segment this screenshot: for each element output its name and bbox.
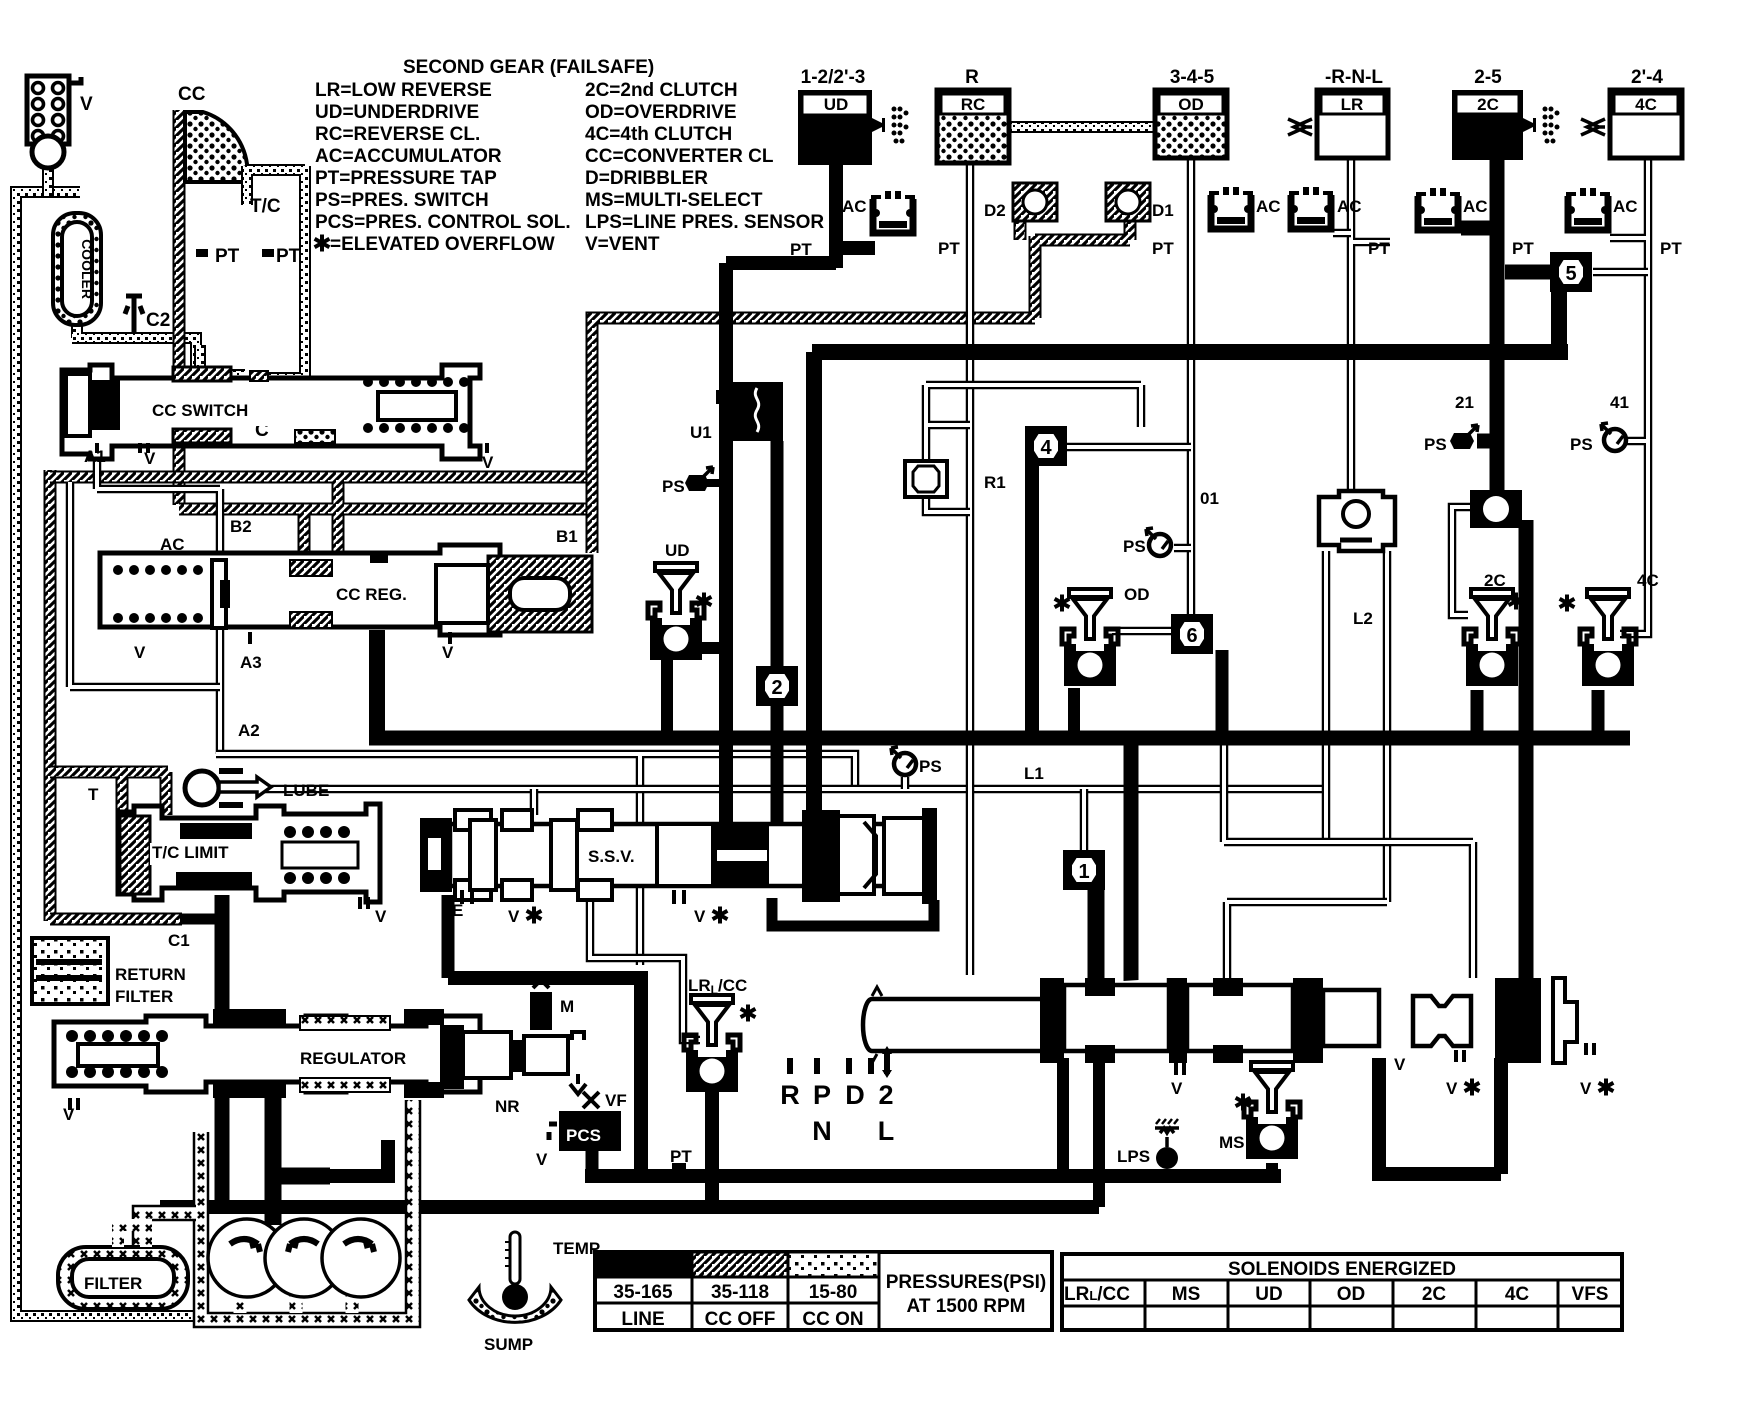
svg-text:2: 2: [771, 677, 782, 699]
svg-text:RC: RC: [961, 95, 986, 114]
white hex4 right loop: [1066, 443, 1191, 452]
connector node 5: [1550, 252, 1592, 292]
svg-text:PT: PT: [1368, 239, 1390, 258]
stippled vent fitting to cooler: [42, 160, 54, 196]
svg-text:=ELEVATED OVERFLOW: =ELEVATED OVERFLOW: [330, 234, 555, 255]
svg-text:FILTER: FILTER: [84, 1274, 142, 1293]
black CC REG drop: [369, 630, 385, 738]
svg-text:AT 1500 RPM: AT 1500 RPM: [907, 1296, 1026, 1317]
svg-text:M: M: [560, 997, 574, 1016]
black E line: [442, 895, 455, 978]
svg-text:LRL/CC: LRL/CC: [688, 976, 747, 997]
svg-text:AC=ACCUMULATOR: AC=ACCUMULATOR: [315, 146, 502, 167]
SSV area: [452, 847, 727, 926]
svg-text:AC: AC: [842, 197, 867, 216]
svg-text:4C: 4C: [1505, 1284, 1530, 1305]
svg-text:P: P: [813, 1080, 831, 1110]
white hex3 loop: [926, 385, 1141, 512]
hatched C1 line: [50, 913, 182, 926]
svg-text:LPS=LINE PRES. SENSOR: LPS=LINE PRES. SENSOR: [585, 212, 824, 233]
black V* loop right: [1372, 1058, 1501, 1174]
svg-text:PCS=PRES. CONTROL SOL.: PCS=PRES. CONTROL SOL.: [315, 212, 571, 233]
black MS drop: [1266, 1163, 1278, 1180]
stippled cooler to C2/C elbow: [72, 322, 196, 368]
white A1 loop: [97, 443, 220, 754]
connector node 2: [756, 666, 798, 706]
svg-text:LUBE: LUBE: [283, 781, 329, 800]
black PCS drop: [586, 1148, 599, 1176]
svg-text:LRL/CC: LRL/CC: [1064, 1284, 1130, 1305]
svg-text:OD: OD: [1178, 95, 1204, 114]
manual valve body right: [1040, 978, 1594, 1075]
top-left labels: [80, 84, 301, 441]
svg-text:2C: 2C: [1477, 95, 1499, 114]
svg-text:PT: PT: [938, 239, 960, 258]
black hex4 drop: [1025, 462, 1039, 738]
S.S.V. valve: [420, 808, 937, 926]
white OD sol to hex6 stub: [1112, 627, 1173, 636]
svg-text:15-80: 15-80: [809, 1282, 858, 1303]
svg-text:L1: L1: [1024, 764, 1044, 783]
pressure switch PS (L1 line): [891, 747, 916, 775]
LUBE fitting: [185, 771, 271, 805]
RETURN FILTER: [32, 938, 108, 1004]
svg-text:PT: PT: [215, 246, 240, 267]
pressure switch PS (41 line): [1601, 423, 1626, 451]
OD clutch: [1155, 90, 1227, 158]
black OD sol drop: [1068, 688, 1080, 738]
white 2C check loop: [1452, 507, 1477, 615]
svg-text:C1: C1: [168, 931, 190, 950]
solenoid 2C: [1464, 589, 1520, 686]
svg-text:REGULATOR: REGULATOR: [300, 1049, 406, 1068]
dribbler D2: [1013, 183, 1057, 221]
accumulator AC (4C): [1566, 188, 1610, 230]
svg-text:CC=CONVERTER CL: CC=CONVERTER CL: [585, 146, 774, 167]
svg-text:4: 4: [1040, 437, 1052, 459]
C2 tap: [125, 296, 143, 334]
black main line A: [369, 731, 1630, 746]
svg-text:V: V: [1171, 1079, 1183, 1098]
black hex6 drop: [1216, 650, 1229, 738]
black 4C sol drop: [1592, 690, 1605, 738]
svg-text:PS: PS: [919, 757, 942, 776]
legend col 1: [315, 80, 571, 255]
svg-text:PT: PT: [1152, 239, 1174, 258]
white LR line down to L2: [1351, 158, 1390, 493]
svg-text:V: V: [80, 94, 93, 115]
UD clutch: [798, 90, 909, 165]
svg-text:AC: AC: [1337, 197, 1362, 216]
svg-text:MS: MS: [1172, 1284, 1201, 1305]
AC / PT / D labels top row: [842, 197, 1638, 216]
svg-text:PS: PS: [662, 477, 685, 496]
accumulator AC (2C): [1416, 188, 1460, 230]
svg-text:VF: VF: [605, 1091, 627, 1110]
solenoid UD: [648, 563, 704, 660]
svg-text:SUMP: SUMP: [484, 1335, 533, 1354]
hatched CC vertical pipe: [173, 110, 186, 368]
white right-middle network: [1224, 745, 1473, 978]
accumulator AC (OD): [1209, 187, 1253, 229]
svg-text:5: 5: [1565, 263, 1576, 285]
black UD clutch line: [726, 160, 875, 828]
svg-text:V=VENT: V=VENT: [585, 234, 660, 255]
svg-text:A3: A3: [240, 653, 262, 672]
accumulator AC (LR): [1289, 187, 1333, 229]
svg-text:UD=UNDERDRIVE: UD=UNDERDRIVE: [315, 102, 479, 123]
connector node 6: [1171, 614, 1213, 654]
svg-text:V: V: [536, 1150, 548, 1169]
svg-text:LINE: LINE: [621, 1309, 664, 1330]
gear letters: [780, 1080, 894, 1146]
svg-text:2C: 2C: [1422, 1284, 1447, 1305]
T/C torque converter: [185, 112, 305, 378]
svg-text:OD: OD: [1337, 1284, 1366, 1305]
svg-text:A1: A1: [84, 447, 106, 466]
svg-text:S.S.V.: S.S.V.: [588, 847, 635, 866]
svg-text:V: V: [134, 643, 146, 662]
black valve-bottom drops: [1063, 1058, 1099, 1207]
cooler: [53, 213, 101, 325]
white L1 PS stub: [901, 777, 910, 789]
pump enclosure x-hatch: [133, 1100, 420, 1327]
svg-text:-R-N-L: -R-N-L: [1325, 67, 1383, 88]
svg-text:LR=LOW REVERSE: LR=LOW REVERSE: [315, 80, 492, 101]
gear selector ticks: [790, 1050, 887, 1074]
U1 valve: [716, 382, 783, 441]
svg-text:E: E: [452, 901, 463, 920]
white RC line down: [966, 163, 975, 975]
svg-text:R1: R1: [984, 473, 1006, 492]
black hex1 drop: [1088, 889, 1105, 982]
black bottom line 2: [160, 1200, 1099, 1214]
accumulator AC (UD): [871, 191, 915, 233]
svg-text:V: V: [1394, 1055, 1406, 1074]
svg-text:COOLER: COOLER: [79, 239, 95, 299]
black 2C clutch line: [1461, 158, 1552, 985]
svg-text:PS: PS: [1424, 435, 1447, 454]
pressure switch PS (21 line): [1450, 425, 1478, 449]
svg-text:MS: MS: [1219, 1133, 1245, 1152]
svg-text:V: V: [144, 449, 156, 468]
svg-text:2: 2: [878, 1080, 893, 1110]
CC SWITCH valve: [62, 365, 487, 459]
svg-text:V: V: [442, 643, 454, 662]
NR / M assembly: [440, 980, 586, 1094]
RC clutch: [937, 90, 1009, 163]
svg-text:2C=2nd CLUTCH: 2C=2nd CLUTCH: [585, 80, 738, 101]
L2 valve: [1319, 491, 1395, 551]
svg-text:SECOND GEAR (FAILSAFE): SECOND GEAR (FAILSAFE): [403, 57, 654, 78]
solenoid MS: [1244, 1062, 1300, 1159]
svg-text:UD: UD: [824, 95, 849, 114]
svg-text:N: N: [812, 1116, 832, 1146]
FILTER: [58, 1225, 188, 1309]
svg-text:VFS: VFS: [1572, 1284, 1609, 1305]
bottom labels: [63, 976, 1613, 1169]
svg-text:4C: 4C: [1637, 571, 1659, 590]
svg-text:LR: LR: [1341, 95, 1364, 114]
svg-text:AC: AC: [1256, 197, 1281, 216]
svg-text:AC: AC: [160, 535, 185, 554]
hatched B2 line: [50, 477, 592, 556]
svg-text:PT: PT: [1512, 239, 1534, 258]
solenoid OD: [1062, 589, 1118, 686]
svg-text:OD=OVERDRIVE: OD=OVERDRIVE: [585, 102, 737, 123]
solenoid 4C: [1580, 589, 1636, 686]
svg-text:UD: UD: [665, 541, 690, 560]
svg-text:CC: CC: [178, 84, 206, 105]
stippled cooler return line left: [16, 192, 207, 1316]
svg-text:OD: OD: [1124, 585, 1150, 604]
clutch titles: [801, 67, 1664, 88]
black C1 stub: [180, 914, 226, 925]
svg-text:V: V: [1446, 1079, 1458, 1098]
svg-text:2-5: 2-5: [1474, 67, 1502, 88]
svg-text:1: 1: [1078, 861, 1089, 883]
black U1 drop: [771, 441, 784, 828]
svg-text:T: T: [88, 785, 99, 804]
manual valve long spool: [863, 987, 1045, 1063]
LR clutch: [1288, 90, 1388, 158]
svg-text:MS=MULTI-SELECT: MS=MULTI-SELECT: [585, 190, 763, 211]
svg-text:RETURN: RETURN: [115, 965, 186, 984]
pressure switch PS (01 line): [1146, 528, 1171, 556]
white left inner loop: [70, 482, 220, 687]
black M/NR top line: [448, 971, 641, 1176]
svg-text:2'-4: 2'-4: [1631, 67, 1663, 88]
svg-text:AC: AC: [1613, 197, 1638, 216]
svg-text:21: 21: [1455, 393, 1474, 412]
svg-text:V: V: [508, 907, 520, 926]
black center drop to valve: [1124, 738, 1139, 985]
white 4C line down: [1610, 158, 1648, 634]
svg-text:V: V: [375, 907, 387, 926]
svg-text:6: 6: [1186, 625, 1197, 647]
svg-text:4C=4th CLUTCH: 4C=4th CLUTCH: [585, 124, 732, 145]
white hex6 PS stub: [1174, 544, 1191, 553]
black pump line right: [330, 1140, 395, 1176]
svg-text:RC=REVERSE CL.: RC=REVERSE CL.: [315, 124, 480, 145]
svg-text:PRESSURES(PSI): PRESSURES(PSI): [886, 1272, 1046, 1293]
svg-text:L: L: [878, 1116, 895, 1146]
svg-text:B1: B1: [556, 527, 578, 546]
white SSV top stub: [530, 789, 539, 815]
black main line B: [812, 288, 1568, 828]
black LRL/CC sol drop: [705, 1083, 719, 1207]
svg-text:D1: D1: [1152, 201, 1174, 220]
svg-text:R: R: [965, 67, 979, 88]
svg-text:V: V: [1580, 1079, 1592, 1098]
connector node 4: [1025, 426, 1067, 466]
white LR AC tee: [1333, 229, 1351, 238]
pumps: [208, 1219, 400, 1297]
white A2 horizontal: [216, 754, 855, 965]
hatched D1 D2 to B1 long line: [592, 218, 1130, 553]
svg-text:NR: NR: [495, 1097, 520, 1116]
connector node 1: [1063, 850, 1105, 890]
svg-text:PT: PT: [670, 1147, 692, 1166]
svg-text:CC ON: CC ON: [802, 1309, 863, 1330]
legend col 2: [315, 80, 825, 255]
svg-text:T/C: T/C: [250, 196, 281, 217]
svg-text:PT: PT: [276, 246, 301, 267]
2C clutch: [1452, 90, 1560, 160]
white hex1 stem: [1080, 789, 1089, 852]
mid labels: [662, 393, 1659, 783]
svg-text:D2: D2: [984, 201, 1006, 220]
white L1 line: [211, 785, 1326, 794]
svg-text:FILTER: FILTER: [115, 987, 173, 1006]
svg-text:3-4-5: 3-4-5: [1170, 67, 1215, 88]
ball check valve on 2C line: [1470, 490, 1522, 528]
svg-text:A2: A2: [238, 721, 260, 740]
VF X symbol: [583, 1092, 599, 1108]
svg-text:U1: U1: [690, 423, 712, 442]
svg-text:B2: B2: [230, 517, 252, 536]
svg-text:D: D: [845, 1080, 865, 1110]
svg-text:V: V: [482, 453, 494, 472]
hatched T/C limit loop: [50, 772, 168, 818]
pressure switch PS (U1 line): [685, 467, 727, 491]
svg-text:T/C LIMIT: T/C LIMIT: [152, 843, 229, 862]
REGULATOR valve: [54, 1009, 480, 1110]
svg-text:LPS: LPS: [1117, 1147, 1150, 1166]
black T/C limit drop: [215, 895, 230, 1211]
dribbler D1: [1106, 183, 1150, 221]
svg-text:CC REG.: CC REG.: [336, 585, 407, 604]
vent fitting top-left: [27, 76, 81, 168]
svg-text:4C: 4C: [1635, 95, 1657, 114]
svg-text:D=DRIBBLER: D=DRIBBLER: [585, 168, 708, 189]
white L2 drops: [1326, 551, 1387, 902]
svg-text:01: 01: [1200, 489, 1219, 508]
T/C LIMIT valve: [118, 804, 380, 909]
svg-text:35-118: 35-118: [711, 1282, 769, 1303]
svg-text:C2: C2: [146, 310, 170, 331]
white hex5 to 4C line: [1593, 268, 1648, 277]
svg-text:35-165: 35-165: [613, 1282, 673, 1303]
svg-text:SOLENOIDS ENERGIZED: SOLENOIDS ENERGIZED: [1228, 1259, 1456, 1280]
svg-text:PS: PS: [1570, 435, 1593, 454]
hatched left wall vertical: [44, 470, 57, 921]
hatched CC switch drop to B2: [173, 443, 186, 505]
svg-text:V: V: [694, 907, 706, 926]
4C clutch: [1581, 90, 1682, 158]
LPS sensor: [1155, 1119, 1179, 1169]
svg-text:PCS: PCS: [566, 1126, 601, 1145]
svg-text:PT=PRESSURE TAP: PT=PRESSURE TAP: [315, 168, 497, 189]
black 2C sol drop: [1471, 690, 1484, 738]
svg-text:PS=PRES. SWITCH: PS=PRES. SWITCH: [315, 190, 489, 211]
svg-text:L2: L2: [1353, 609, 1373, 628]
black regulator to pump drop: [265, 1083, 330, 1225]
PCS: [549, 1111, 621, 1151]
stippled RC to OD connector: [1009, 121, 1160, 133]
svg-text:2C: 2C: [1484, 571, 1506, 590]
TEMP thermometer + SUMP: [469, 1232, 561, 1322]
CC REG valve: [100, 545, 592, 644]
solenoid LRL/CC: [684, 995, 740, 1092]
svg-text:1-2/2'-3: 1-2/2'-3: [801, 67, 866, 88]
black UD sol drop: [667, 648, 726, 738]
svg-text:CC SWITCH: CC SWITCH: [152, 401, 248, 420]
svg-text:PT: PT: [1660, 239, 1682, 258]
svg-text:41: 41: [1610, 393, 1629, 412]
svg-text:PS: PS: [1123, 537, 1146, 556]
svg-text:AC: AC: [1463, 197, 1488, 216]
svg-text:PT: PT: [790, 240, 812, 259]
svg-text:R: R: [780, 1080, 800, 1110]
white SSV to LRL/CC feed: [590, 895, 700, 1040]
svg-text:CC OFF: CC OFF: [705, 1309, 776, 1330]
svg-text:V: V: [63, 1105, 75, 1124]
black bottom line 1: [585, 1169, 1281, 1183]
white OD line to hex6: [1187, 158, 1196, 616]
svg-text:UD: UD: [1255, 1284, 1282, 1305]
